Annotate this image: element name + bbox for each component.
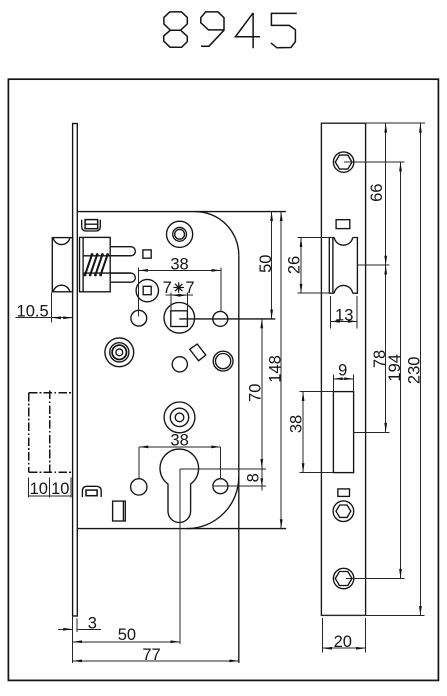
deadbolt center line <box>354 431 390 433</box>
latch bobbin front <box>329 238 357 294</box>
square hole top <box>143 250 151 258</box>
svg-text:70: 70 <box>246 384 264 402</box>
dim 148 <box>280 212 282 529</box>
clip top <box>82 220 101 231</box>
latch prong bottom <box>110 273 135 282</box>
dim 9 <box>332 375 334 393</box>
dim 10 10 <box>28 477 30 497</box>
svg-text:26: 26 <box>285 256 303 274</box>
clip bottom <box>82 486 101 497</box>
dim 70 <box>261 319 263 469</box>
svg-text:10: 10 <box>30 480 48 498</box>
double circle <box>213 351 233 371</box>
screw post left <box>105 338 134 367</box>
latch head <box>52 238 72 292</box>
latch center line <box>357 264 389 266</box>
latch prong top <box>110 247 135 256</box>
svg-text:8: 8 <box>245 473 263 482</box>
bottom circle line <box>213 485 266 487</box>
euro cylinder <box>160 449 199 522</box>
follower center line <box>179 318 275 320</box>
small rect hole top <box>336 220 350 229</box>
dim 38 top <box>139 269 221 271</box>
bottom hole right <box>213 479 228 494</box>
small rect part <box>113 501 126 521</box>
svg-text:38: 38 <box>170 432 188 450</box>
svg-text:148: 148 <box>266 355 284 383</box>
svg-text:13: 13 <box>335 306 353 324</box>
svg-text:38: 38 <box>170 256 188 274</box>
hole left <box>131 310 147 326</box>
ext plate-left bottom <box>72 616 74 663</box>
circle with square (left) <box>136 279 158 301</box>
faceplate side view <box>73 124 78 617</box>
title 8945 <box>164 12 297 48</box>
hex screw bottom <box>333 568 353 588</box>
hole right <box>213 311 228 326</box>
svg-text:77: 77 <box>142 646 160 664</box>
svg-text:9: 9 <box>338 361 347 379</box>
svg-text:194: 194 <box>386 354 404 382</box>
dim 50 right <box>271 212 273 319</box>
diagonal rect <box>190 344 206 361</box>
dim 20 <box>322 618 324 652</box>
dim 66 <box>385 123 387 265</box>
lock case outline <box>77 211 286 213</box>
dim 13 <box>329 296 331 329</box>
dim 230 <box>419 123 421 615</box>
svg-text:3: 3 <box>88 615 97 633</box>
dim 194 <box>400 162 402 578</box>
svg-text:230: 230 <box>406 357 424 385</box>
cylinder cross lines <box>180 468 266 470</box>
svg-text:10: 10 <box>51 480 69 498</box>
dim 38 right <box>302 392 304 473</box>
follower square <box>164 303 195 334</box>
svg-text:7: 7 <box>185 279 194 297</box>
hex screw top <box>333 152 353 172</box>
screw post top <box>167 221 193 247</box>
svg-text:50: 50 <box>257 255 275 273</box>
deadbolt cutout front <box>333 392 353 473</box>
dim 50 bottom <box>73 641 180 643</box>
hex screw middle <box>333 501 354 522</box>
small rect hole bottom <box>338 489 350 497</box>
screw post bottom <box>164 402 195 433</box>
svg-text:7: 7 <box>163 279 172 297</box>
svg-text:20: 20 <box>334 633 352 651</box>
svg-text:66: 66 <box>368 184 386 202</box>
small circle center <box>172 357 187 372</box>
deadbolt hidden (dashed) <box>29 391 73 475</box>
dim 38 bottom <box>139 446 221 448</box>
dim 26 <box>300 238 302 294</box>
svg-text:50: 50 <box>118 626 136 644</box>
faceplate front view <box>321 123 365 615</box>
svg-text:38: 38 <box>287 415 305 433</box>
latch housing <box>80 237 111 291</box>
dim 77 <box>73 660 239 662</box>
dim 78 <box>385 265 387 432</box>
dim 8 <box>261 469 263 491</box>
bottom hole left <box>131 479 147 495</box>
spring hatching <box>85 255 108 276</box>
